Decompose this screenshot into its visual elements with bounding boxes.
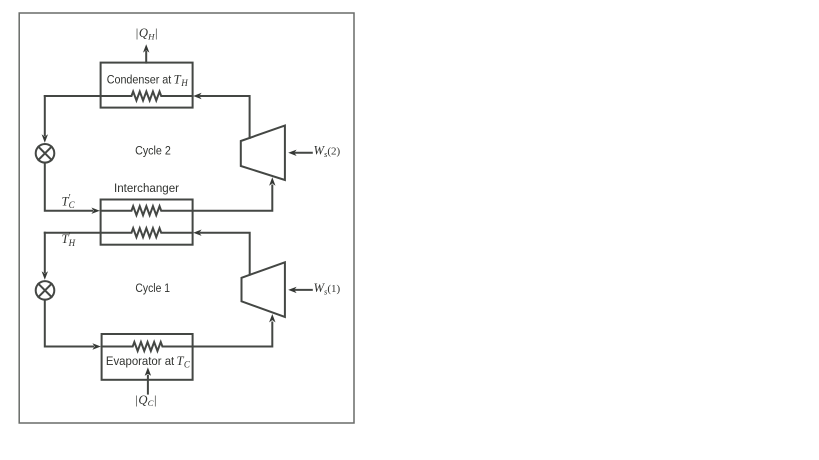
arrow: Ws(2) into compressor 2	[288, 150, 312, 156]
expansion valve V1 (circle with X)	[36, 144, 55, 163]
label: Condenser at TH	[107, 73, 189, 89]
wire: compressor 1 discharge to interchanger bottom coil (arrow into box)	[193, 230, 250, 275]
svg-text:Ws(1): Ws(1)	[314, 281, 341, 297]
interchanger box	[101, 200, 193, 245]
svg-text:|QC|: |QC|	[135, 393, 156, 408]
svg-text:|QH|: |QH|	[136, 26, 158, 41]
svg-text:H: H	[180, 78, 188, 88]
wire: interchanger top coil to compressor 2 suction (arrow up)	[101, 177, 276, 215]
wire: left downcomer to expansion valve 2 (arrow down)	[42, 233, 48, 280]
wire: valve 1 to interchanger inlet (down then right, arrow into box)	[45, 163, 100, 214]
wire: compressor 2 discharge to condenser (with left arrowhead)	[193, 93, 249, 138]
arrow: |QC| into evaporator bottom	[145, 367, 151, 393]
evaporator box	[102, 334, 193, 380]
svg-text:Cycle 1: Cycle 1	[135, 281, 170, 295]
svg-text:Cycle 2: Cycle 2	[135, 144, 171, 158]
svg-text:C: C	[184, 360, 191, 370]
wire: left downcomer to expansion valve 1 (arrow down)	[42, 96, 48, 143]
condenser box	[101, 63, 193, 108]
svg-text:Evaporator at: Evaporator at	[106, 354, 175, 368]
wire: valve 2 to evaporator inlet (down then right, arrow into box)	[45, 300, 101, 350]
compressor 2 (trapezoid)	[241, 126, 285, 181]
svg-text:Interchanger: Interchanger	[114, 181, 179, 195]
svg-text:T′C: T′C	[62, 193, 76, 210]
expansion valve V2 (circle with X)	[36, 281, 55, 300]
arrow: |QH| out of condenser top	[143, 44, 149, 62]
wire: interchanger bottom coil out left side	[45, 228, 193, 237]
svg-text:Ws(2): Ws(2)	[314, 144, 341, 160]
label: Evaporator at TC	[106, 354, 191, 370]
wire: evaporator coil to compressor 1 suction (arrow up)	[102, 314, 276, 351]
compressor 1 (trapezoid)	[242, 262, 285, 317]
arrow: Ws(1) into compressor 1	[288, 287, 312, 293]
svg-text:Condenser at: Condenser at	[107, 73, 172, 87]
wire: condenser loop left (coil line through condenser box, out left side)	[45, 92, 193, 101]
